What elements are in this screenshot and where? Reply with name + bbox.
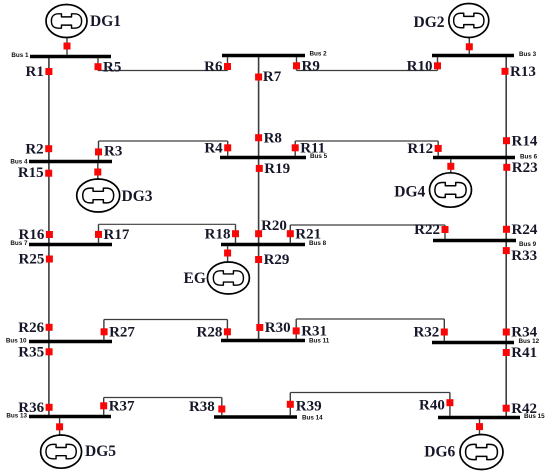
bus Bus 3 xyxy=(432,51,537,58)
relay R36 xyxy=(18,400,52,416)
relay R4 xyxy=(204,141,231,157)
DG1 connection square xyxy=(64,43,71,50)
relay R15 xyxy=(18,165,52,181)
generator DG5 xyxy=(41,435,117,468)
bus Bus 4 xyxy=(10,158,112,165)
DG3 connection square xyxy=(94,169,101,176)
svg-text:R25: R25 xyxy=(19,252,45,268)
svg-text:R6: R6 xyxy=(204,59,223,75)
generator DG4 xyxy=(394,173,471,207)
relay R37 xyxy=(100,399,135,415)
generator DG1 xyxy=(46,5,121,38)
relay R19 xyxy=(256,161,290,177)
R18 stub xyxy=(235,224,237,243)
bus Bus 15 xyxy=(438,413,545,420)
relay R32 xyxy=(413,325,447,341)
DG2 connection square xyxy=(466,43,473,50)
relay R18 xyxy=(205,226,239,242)
svg-text:R35: R35 xyxy=(18,345,44,361)
relay R39 xyxy=(287,398,322,414)
wire R37-R38 xyxy=(104,397,222,399)
R3 stub xyxy=(98,141,100,160)
relay R34 xyxy=(503,325,538,341)
generator DG6 xyxy=(424,435,503,470)
svg-text:R26: R26 xyxy=(18,320,44,336)
relay R21 xyxy=(287,226,321,242)
EG stub xyxy=(227,246,229,262)
generator DG3 xyxy=(77,179,153,212)
wire R17-R18 xyxy=(99,223,236,225)
generator DG2 xyxy=(414,4,489,38)
relay R22 xyxy=(414,222,448,238)
DG6 stub xyxy=(479,419,481,434)
relay R30 xyxy=(256,320,290,336)
wire R27-R28 xyxy=(104,319,227,321)
relay R25 xyxy=(19,252,53,268)
svg-text:R7: R7 xyxy=(263,69,282,85)
svg-text:Bus 14: Bus 14 xyxy=(302,414,323,421)
R22 stub xyxy=(444,225,446,239)
svg-text:R16: R16 xyxy=(19,227,45,243)
svg-text:R19: R19 xyxy=(264,161,290,177)
relay R5 xyxy=(95,59,122,75)
svg-text:DG3: DG3 xyxy=(122,188,153,205)
svg-text:Bus 1: Bus 1 xyxy=(11,52,29,59)
DG6 connection square xyxy=(476,423,483,430)
svg-text:R1: R1 xyxy=(26,64,44,80)
R21 stub xyxy=(289,225,291,243)
svg-text:R28: R28 xyxy=(197,325,223,341)
DG5 stub xyxy=(59,418,61,435)
svg-text:R42: R42 xyxy=(511,401,537,417)
relay R6 xyxy=(204,59,231,75)
relay R31 xyxy=(293,324,327,340)
R17 stub xyxy=(98,224,100,243)
svg-text:R31: R31 xyxy=(301,324,327,340)
R10 stub xyxy=(437,57,439,70)
relay R33 xyxy=(503,247,537,264)
R38 stub xyxy=(221,398,223,416)
svg-text:R21: R21 xyxy=(295,226,321,242)
EG connection square xyxy=(224,250,231,257)
DG4 stub xyxy=(450,159,452,173)
relay R10 xyxy=(407,59,441,75)
relay R7 xyxy=(255,69,282,85)
R40 stub xyxy=(449,393,451,416)
DG5 connection square xyxy=(56,423,63,430)
relay R35 xyxy=(18,345,52,361)
R12 stub xyxy=(437,141,439,156)
svg-text:R38: R38 xyxy=(189,399,215,415)
R5 stub xyxy=(97,58,99,70)
bus Bus 9 xyxy=(433,241,537,249)
R11 stub xyxy=(294,141,296,156)
relay R38 xyxy=(189,399,225,415)
DG1 stub xyxy=(66,37,68,55)
relay R28 xyxy=(197,325,231,341)
svg-text:R15: R15 xyxy=(18,165,44,181)
bus Bus 6 xyxy=(433,154,538,161)
svg-text:R27: R27 xyxy=(109,325,135,341)
relay R42 xyxy=(503,401,537,417)
svg-text:R23: R23 xyxy=(512,160,538,176)
wire R21-R22 xyxy=(290,224,445,226)
svg-text:R9: R9 xyxy=(302,59,320,75)
relay R16 xyxy=(19,227,53,243)
svg-text:EG: EG xyxy=(184,270,206,287)
relay R14 xyxy=(503,133,538,149)
relay R8 xyxy=(255,130,282,146)
R9 stub xyxy=(296,57,298,70)
wire R9-R10 xyxy=(297,70,438,72)
svg-text:R3: R3 xyxy=(104,143,122,159)
relay R17 xyxy=(95,227,130,243)
generator EG xyxy=(184,262,250,294)
relay R24 xyxy=(503,222,538,238)
bus Bus 11 xyxy=(221,337,330,344)
svg-text:R30: R30 xyxy=(265,320,291,336)
relay R11 xyxy=(292,141,326,157)
relay R2 xyxy=(25,141,52,157)
left feeder Bus1-Bus13 xyxy=(48,57,50,416)
R39 stub xyxy=(289,393,291,416)
bus Bus 1 xyxy=(11,52,111,59)
bus Bus 2 xyxy=(222,51,327,58)
R4 stub xyxy=(227,141,229,156)
svg-text:R5: R5 xyxy=(103,59,121,75)
svg-text:R37: R37 xyxy=(109,399,135,415)
svg-text:R13: R13 xyxy=(510,64,536,80)
relay R27 xyxy=(101,325,136,341)
relay R3 xyxy=(95,143,122,159)
svg-text:DG6: DG6 xyxy=(424,443,455,460)
svg-text:R41: R41 xyxy=(511,345,537,361)
relay R9 xyxy=(293,59,320,75)
wire R11-R12 xyxy=(295,140,438,142)
svg-text:R17: R17 xyxy=(104,227,130,243)
relay R26 xyxy=(18,320,52,336)
svg-text:R8: R8 xyxy=(264,130,282,146)
wire R31-R32 xyxy=(296,318,444,320)
svg-text:R18: R18 xyxy=(205,226,231,242)
svg-text:R40: R40 xyxy=(419,397,445,413)
svg-text:Bus 3: Bus 3 xyxy=(519,51,537,58)
svg-text:Bus 2: Bus 2 xyxy=(310,51,328,58)
svg-text:DG4: DG4 xyxy=(394,184,425,201)
relay R29 xyxy=(255,252,289,268)
svg-text:R4: R4 xyxy=(204,141,223,157)
svg-text:R10: R10 xyxy=(407,59,433,75)
svg-text:R29: R29 xyxy=(264,252,290,268)
svg-text:R39: R39 xyxy=(296,398,322,414)
svg-text:DG2: DG2 xyxy=(414,14,445,31)
relay R1 xyxy=(26,64,53,80)
svg-text:R22: R22 xyxy=(414,222,440,238)
R31 stub xyxy=(295,319,297,339)
DG2 stub xyxy=(468,37,470,54)
DG4 connection square xyxy=(447,163,454,170)
relay R13 xyxy=(502,64,536,80)
R6 stub xyxy=(227,57,229,70)
relay R41 xyxy=(503,345,537,361)
relay R40 xyxy=(419,397,453,413)
svg-text:R33: R33 xyxy=(511,248,537,264)
relay R23 xyxy=(503,160,537,176)
bus Bus 13 xyxy=(6,413,111,420)
svg-text:R20: R20 xyxy=(261,218,287,234)
wire R3-R4 xyxy=(99,140,228,142)
bus Bus 8 xyxy=(221,240,327,247)
svg-text:DG5: DG5 xyxy=(85,443,116,460)
svg-text:R32: R32 xyxy=(413,325,439,341)
bus Bus 7 xyxy=(10,240,112,247)
svg-text:Bus 10: Bus 10 xyxy=(6,337,27,344)
svg-text:DG1: DG1 xyxy=(90,13,121,30)
svg-text:R34: R34 xyxy=(511,325,537,341)
svg-text:R12: R12 xyxy=(407,141,433,157)
R27 stub xyxy=(103,320,105,340)
svg-text:R36: R36 xyxy=(18,400,44,416)
bus Bus 5 xyxy=(220,153,328,160)
svg-text:R14: R14 xyxy=(512,133,538,149)
bus Bus 10 xyxy=(6,337,112,344)
bus Bus 14 xyxy=(214,414,323,421)
svg-text:R2: R2 xyxy=(25,141,43,157)
R32 stub xyxy=(443,319,445,341)
wire R5-R6 xyxy=(98,70,228,72)
right feeder Bus3-Bus15 xyxy=(505,57,507,418)
svg-text:R24: R24 xyxy=(512,222,538,238)
relay R20 xyxy=(255,218,287,237)
svg-text:R11: R11 xyxy=(300,141,325,157)
R28 stub xyxy=(226,320,228,339)
bus Bus 12 xyxy=(432,338,540,345)
R37 stub xyxy=(103,398,105,415)
DG3 stub xyxy=(97,163,99,179)
middle feeder Bus2-Bus11 xyxy=(258,57,260,341)
relay R12 xyxy=(407,141,441,157)
wire R39-R40 xyxy=(290,392,450,394)
